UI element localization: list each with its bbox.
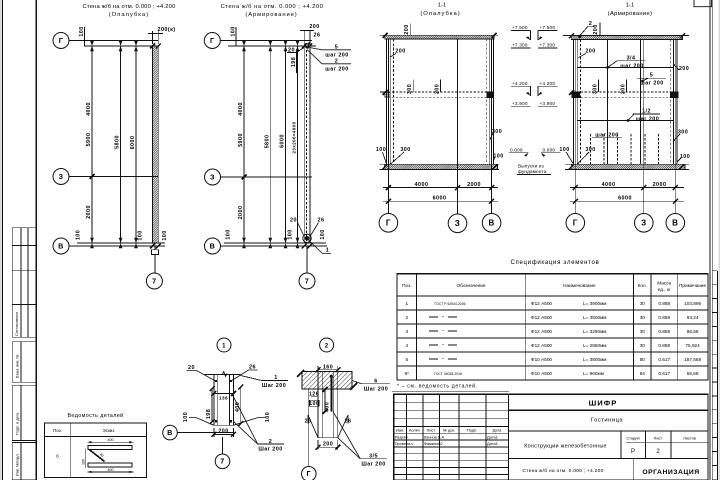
leader 26 bottom	[310, 223, 319, 237]
tb stadia cols	[620, 431, 622, 458]
s2 left wall lines	[573, 40, 575, 165]
svg-text:30: 30	[640, 315, 646, 320]
svg-text:100: 100	[320, 229, 326, 239]
svg-text:Дата1: Дата1	[487, 441, 498, 446]
svg-text:З: З	[59, 172, 64, 181]
svg-text:93,24: 93,24	[687, 315, 699, 320]
svg-text:Ф12 А500: Ф12 А500	[531, 343, 552, 348]
top-right corner box	[694, 0, 712, 7]
d2 dim 126 line	[311, 396, 318, 398]
axis line Z	[69, 176, 159, 178]
svg-text:Шаг 200: Шаг 200	[262, 383, 286, 389]
d2 leader 26 left	[308, 415, 318, 438]
wall rebar dashed	[306, 46, 308, 243]
TITLEBLOCK	[394, 394, 708, 480]
s1 circle G	[379, 214, 398, 233]
s1 circle V	[482, 214, 501, 233]
svg-text:+7.500: +7.500	[540, 25, 556, 30]
svg-text:№ док.: № док.	[443, 427, 455, 432]
svg-text:100: 100	[680, 154, 690, 160]
d1 label1 line	[262, 380, 288, 382]
s2 right wall dashed	[669, 40, 671, 165]
svg-text:5800: 5800	[264, 135, 270, 149]
d2 label6 leader	[352, 381, 362, 384]
svg-text:1: 1	[274, 375, 277, 381]
s2 left wall dashed	[580, 40, 582, 165]
svg-text:200: 200	[435, 84, 441, 94]
svg-text:Изм.: Изм.	[396, 427, 404, 432]
svg-text:(Армирование): (Армирование)	[608, 11, 652, 17]
s2 leader 100 r	[677, 158, 681, 162]
ticks plan2	[242, 41, 313, 249]
svg-text:6*: 6*	[405, 371, 410, 376]
svg-text:75,924: 75,924	[685, 343, 700, 348]
s2 circle V	[666, 214, 685, 233]
svg-text:В: В	[672, 218, 678, 227]
svg-text:5: 5	[335, 45, 338, 51]
svg-text:100: 100	[376, 147, 386, 153]
svg-text:4000: 4000	[602, 182, 616, 188]
svg-text:L= 3250мм: L= 3250мм	[583, 329, 607, 334]
svg-text:1/2: 1/2	[642, 109, 651, 115]
s1 leader 300 bl	[390, 152, 404, 164]
svg-text:фундамента: фундамента	[518, 169, 547, 174]
s2 axis G vertical	[574, 40, 576, 214]
svg-text:* – см. ведомость детале: * – см. ведомость деталей.	[397, 383, 478, 390]
svg-text:Дата1: Дата1	[487, 434, 498, 439]
svg-text:100: 100	[138, 230, 144, 240]
svg-text:1-1: 1-1	[626, 3, 634, 9]
wall outline plan2	[304, 46, 310, 243]
ved sketch left dim	[85, 448, 87, 468]
d1 leader 20	[187, 371, 216, 382]
elev flag 0.000 s2	[541, 147, 561, 156]
paper left edge	[0, 0, 2, 480]
svg-text:200: 200	[620, 84, 626, 94]
elev flag 0.000 s1	[509, 147, 529, 156]
axis circle 72	[299, 273, 315, 289]
svg-text:400: 400	[108, 468, 114, 472]
dim 200k top	[152, 31, 154, 44]
dim line L3	[135, 46, 137, 243]
svg-text:2000: 2000	[238, 206, 244, 220]
d1 dim arrows	[210, 385, 244, 437]
axis line Z2	[221, 176, 313, 178]
d1 circle V	[163, 425, 178, 440]
svg-text:200: 200	[679, 66, 689, 72]
svg-text:'': ''	[442, 357, 444, 362]
svg-text:(Армирование): (Армирование)	[245, 12, 297, 18]
svg-text:ШИФР: ШИФР	[589, 398, 618, 407]
rebar ring bottom	[303, 234, 311, 242]
main frame right line	[709, 0, 711, 480]
svg-text:30: 30	[640, 343, 646, 348]
main frame left line	[35, 0, 37, 480]
d1 member right lines	[229, 375, 231, 426]
axis circle 7	[146, 273, 162, 289]
svg-text:шаг 200: шаг 200	[640, 81, 663, 87]
s2 bottom dim line1	[570, 187, 684, 189]
svg-text:300: 300	[492, 129, 502, 135]
svg-text:300: 300	[592, 84, 598, 94]
svg-text:Проверил: Проверил	[395, 441, 413, 446]
svg-text:Эскиз: Эскиз	[103, 428, 115, 433]
ved arrows	[88, 441, 134, 473]
svg-text:2: 2	[405, 315, 408, 320]
s1 axis G vertical	[387, 39, 389, 213]
axis circle Z	[53, 169, 69, 185]
svg-text:200(к): 200(к)	[158, 27, 176, 33]
svg-text:В: В	[210, 241, 216, 250]
stamp cell Podp i data	[12, 385, 36, 440]
d1 rebar dots	[215, 380, 217, 382]
svg-text:З: З	[210, 172, 215, 181]
svg-text:7: 7	[220, 457, 224, 466]
d1 circle 1	[217, 338, 231, 352]
s1 mid slab right black	[487, 92, 494, 98]
svg-text:26: 26	[345, 419, 352, 425]
svg-text:6: 6	[374, 379, 377, 385]
DETAIL2	[297, 338, 390, 480]
svg-text:6000: 6000	[280, 134, 286, 148]
d2 wall left lines	[317, 372, 319, 438]
svg-text:(Опалубка): (Опалубка)	[109, 12, 149, 18]
s2 leader 5	[637, 78, 666, 82]
svg-text:0.000: 0.000	[510, 147, 523, 152]
svg-text:200: 200	[404, 24, 410, 34]
svg-text:Ф12 А500: Ф12 А500	[531, 301, 552, 306]
d1 member left lines	[213, 375, 215, 426]
axis circle G	[53, 33, 69, 49]
s1 circle Z	[448, 214, 467, 233]
spec repeat marks	[429, 317, 457, 359]
svg-text:Шаг 200: Шаг 200	[361, 461, 385, 467]
axis circle Z2	[205, 169, 221, 185]
svg-text:26: 26	[314, 33, 321, 39]
d1 dim 200 line	[214, 433, 234, 435]
svg-text:86,58: 86,58	[687, 329, 699, 334]
dim 198 line	[296, 50, 298, 73]
dim ext 100 top	[84, 27, 86, 46]
svg-text:2: 2	[325, 343, 329, 349]
s2 dim 200 slab line	[599, 23, 601, 36]
s2 mid slab right black	[670, 92, 679, 98]
svg-text:26: 26	[249, 365, 256, 371]
s1 mid slab end ticks	[383, 90, 494, 97]
svg-text:Качнов В.А.: Качнов В.А.	[424, 434, 445, 439]
svg-text:Листов: Листов	[683, 436, 696, 441]
svg-text:Колич: Колич	[409, 427, 420, 432]
svg-text:100: 100	[287, 229, 293, 239]
axis line V	[69, 245, 165, 247]
svg-text:З: З	[455, 219, 460, 228]
svg-text:+3.900: +3.900	[512, 101, 528, 106]
tb row3 line	[508, 457, 708, 459]
svg-text:Поз.: Поз.	[402, 283, 411, 288]
svg-text:300: 300	[678, 130, 688, 136]
svg-text:ГОСТ Р 52544-2006: ГОСТ Р 52544-2006	[435, 302, 466, 306]
svg-text:0.617: 0.617	[658, 371, 670, 376]
d2 wall right lines	[333, 372, 335, 438]
s1 right wall dashed	[486, 39, 488, 164]
svg-text:100: 100	[265, 412, 271, 422]
leader 20 bottom	[298, 223, 305, 237]
wall strip hatched	[153, 46, 159, 243]
wall top edge line2	[228, 45, 316, 47]
svg-text:Фамилия2: Фамилия2	[424, 441, 443, 446]
svg-text:Стена ж/б на отм. 0.000 ; +4.2: Стена ж/б на отм. 0.000 ; +4.200	[522, 468, 603, 474]
s2 mid end ticks	[569, 90, 677, 97]
svg-text:300: 300	[407, 84, 413, 94]
svg-text:Г: Г	[210, 36, 215, 45]
s2 leader 3/4	[606, 61, 645, 69]
svg-text:+3.900: +3.900	[540, 101, 556, 106]
d2 label35 leaders	[338, 438, 361, 459]
svg-text:200: 200	[395, 49, 405, 55]
svg-text:Г: Г	[573, 218, 578, 227]
ELEVMARKS	[509, 25, 561, 174]
svg-text:1: 1	[326, 248, 329, 254]
svg-text:Дата: Дата	[493, 427, 502, 432]
svg-text:'': ''	[442, 329, 444, 334]
s2 axis Z vertical	[643, 40, 645, 214]
svg-text:400: 400	[325, 402, 331, 412]
s1 axis Z vertical	[457, 39, 459, 214]
svg-text:100: 100	[231, 26, 237, 36]
d1 leader 26	[231, 370, 258, 381]
svg-text:Ф12 А500: Ф12 А500	[531, 329, 552, 334]
s2 mid slab dashed lines	[577, 91, 673, 93]
s1 bottom band hatched	[384, 164, 497, 169]
s2 mid slab left black	[571, 92, 580, 98]
svg-text:Г: Г	[386, 218, 391, 227]
s1 bottom end ticks	[382, 165, 497, 170]
s2 leader 1/2	[627, 114, 660, 122]
svg-text:Масса: Масса	[657, 280, 671, 285]
ved sketch top dim	[88, 441, 134, 443]
svg-text:0.888: 0.888	[658, 329, 670, 334]
svg-text:160: 160	[323, 365, 333, 371]
ved sketch bottom bar	[88, 463, 132, 467]
PLAN2	[204, 27, 351, 289]
s2 rebar horiz 2	[577, 120, 673, 122]
svg-text:20: 20	[290, 218, 297, 224]
svg-text:Лист: Лист	[427, 427, 436, 432]
s1 mid slab left hatch	[385, 92, 390, 97]
s2 dim ticks bottom	[573, 185, 678, 204]
d2 leader 26 right	[338, 415, 348, 438]
dim line P2L1	[243, 46, 245, 243]
VEDOMOST	[44, 423, 146, 478]
s1 left wall lines	[386, 39, 388, 164]
d2 slab end ticks	[297, 370, 357, 390]
d1 axis line 7	[222, 437, 224, 454]
spec header bottom	[397, 295, 708, 297]
svg-text:7: 7	[152, 276, 156, 285]
axis circle V2	[205, 238, 221, 254]
d2 rebar thick	[330, 377, 332, 412]
d2 circle 2	[320, 338, 334, 352]
s2 right wall lines	[673, 40, 675, 165]
wall top edge line	[84, 45, 159, 47]
dim line P2L3	[285, 46, 287, 243]
svg-text:Спецификация элементов: Спецификация элементов	[511, 260, 600, 266]
s2 label2 leader	[588, 25, 595, 27]
s2 bottom ext lines	[565, 163, 689, 165]
svg-text:7: 7	[305, 276, 309, 285]
svg-text:L= 3500мм: L= 3500мм	[583, 315, 607, 320]
svg-text:5: 5	[405, 357, 408, 362]
s2 circle Z	[635, 214, 654, 233]
step to axis72	[306, 246, 308, 273]
s1 dim 200 mid line	[440, 80, 442, 93]
s1 dim 200 slab line	[410, 24, 412, 36]
svg-text:L= 3900мм: L= 3900мм	[583, 301, 607, 306]
svg-text:0.888: 0.888	[658, 301, 670, 306]
ved sketch diagonal	[89, 449, 105, 461]
underline 20t	[287, 52, 296, 54]
s2 leader 300 r	[674, 134, 681, 141]
svg-text:+7.300: +7.300	[512, 43, 528, 48]
svg-text:100: 100	[79, 26, 85, 36]
svg-text:шаг 200: шаг 200	[325, 67, 348, 73]
svg-text:ОРГАНИЗАЦИЯ: ОРГАНИЗАЦИЯ	[642, 469, 699, 476]
s2 dim 200 mid line	[625, 80, 627, 93]
s1 dim ticks bottom	[386, 185, 494, 204]
s1 left wall dashed	[392, 39, 394, 164]
svg-text:6000: 6000	[618, 196, 632, 202]
tb left cols	[406, 394, 408, 480]
svg-text:4000: 4000	[415, 182, 429, 188]
s1 leader 100 r	[493, 157, 494, 162]
svg-text:Стена ж/б на отм. 0.000 ; +4.2: Стена ж/б на отм. 0.000 ; +4.200	[221, 4, 324, 10]
svg-text:0.617: 0.617	[658, 357, 670, 362]
svg-text:+7.500: +7.500	[512, 25, 528, 30]
d2 circle G	[302, 467, 317, 480]
svg-text:Гостиница: Гостиница	[591, 418, 624, 424]
s1 right wall lines	[489, 39, 491, 164]
svg-text:Кол.: Кол.	[638, 283, 647, 288]
s1 bottom ext line	[380, 163, 500, 165]
tb org divider	[632, 458, 634, 480]
svg-text:Поз.: Поз.	[53, 428, 62, 433]
ved sketch bottom dim	[88, 471, 134, 473]
svg-text:200: 200	[323, 442, 333, 448]
dim 200 top2	[303, 31, 305, 45]
svg-text:198: 198	[291, 57, 297, 67]
d1 leader 100 right	[233, 418, 265, 426]
svg-text:Наименование: Наименование	[563, 283, 596, 288]
svg-text:136: 136	[219, 396, 228, 401]
wall bottom edge line2	[224, 242, 326, 244]
d2 label35 line	[360, 458, 387, 460]
s2 dot pos2	[578, 35, 581, 38]
svg-text:2000: 2000	[86, 205, 92, 219]
d2 dim ticks	[316, 367, 341, 449]
s2 rebar vert 2	[640, 40, 642, 165]
svg-text:23х200=4600: 23х200=4600	[292, 121, 297, 153]
leader pos1	[309, 240, 332, 254]
svg-text:Ф12 А500: Ф12 А500	[531, 315, 552, 320]
svg-text:Инв. №подл.: Инв. №подл.	[16, 453, 20, 476]
svg-text:В: В	[58, 241, 64, 250]
rebar dot top	[308, 42, 311, 45]
axis circle V	[53, 238, 69, 254]
tb shifr line	[508, 409, 708, 411]
svg-text:55,68: 55,68	[687, 371, 699, 376]
d2 wall bottom	[318, 437, 338, 439]
svg-text:100: 100	[162, 230, 168, 240]
elev flag +4.200/+3.900 s2	[538, 81, 558, 107]
svg-text:26: 26	[305, 419, 312, 425]
svg-text:L= 960мм: L= 960мм	[583, 371, 604, 376]
leader pos5	[310, 48, 352, 50]
d2 slab band hatched	[302, 372, 352, 390]
svg-text:Согласовано: Согласовано	[14, 311, 19, 336]
LEFTSTAMP	[12, 228, 36, 480]
d1 label1 leader	[241, 376, 262, 381]
leader 20t	[296, 48, 304, 53]
s1 axis V vertical	[491, 39, 493, 213]
svg-text:100: 100	[493, 154, 503, 160]
svg-text:ед., кг: ед., кг	[658, 287, 671, 292]
svg-text:6000: 6000	[130, 136, 136, 150]
svg-text:2: 2	[269, 439, 272, 445]
svg-text:Взам. инв. №: Взам. инв. №	[16, 354, 20, 378]
svg-text:187,568: 187,568	[684, 357, 701, 362]
svg-text:Ф10 А500: Ф10 А500	[531, 357, 552, 362]
s1 top slab hatched	[385, 35, 494, 39]
s1 top slab end ticks	[383, 33, 497, 38]
svg-text:'': ''	[442, 343, 444, 348]
svg-text:20: 20	[288, 48, 295, 54]
svg-text:L= 3800мм: L= 3800мм	[583, 357, 607, 362]
svg-text:Ведомость деталей: Ведомость деталей	[67, 412, 123, 419]
svg-text:шаг 200: шаг 200	[636, 117, 659, 123]
s2 top slab hatched	[571, 36, 682, 40]
svg-text:100: 100	[76, 230, 82, 240]
svg-text:4000: 4000	[86, 102, 92, 116]
axis line G2	[220, 40, 312, 42]
tb main divider	[507, 394, 509, 480]
spec naimenovanie	[531, 301, 607, 376]
svg-text:3/5: 3/5	[369, 454, 378, 460]
svg-text:шаг 200: шаг 200	[595, 132, 618, 138]
svg-text:+7.300: +7.300	[540, 43, 556, 48]
d1 axis line V	[177, 432, 233, 434]
d2 dim 400 line	[324, 390, 326, 412]
s2 bottom dim line2	[570, 200, 684, 202]
s2 rebar dashed verts	[591, 134, 659, 164]
svg-text:126: 126	[309, 392, 319, 398]
d1 dim 200 ext	[213, 428, 215, 437]
s2 rebar vert 1	[607, 40, 609, 165]
s2 shag200 dim	[592, 137, 622, 139]
d2 dim 160 line	[318, 369, 338, 371]
s2 axis V vertical	[674, 40, 676, 214]
tb gostinica line	[508, 430, 708, 432]
svg-text:200: 200	[585, 49, 595, 55]
svg-text:Шаг 200: Шаг 200	[364, 386, 388, 392]
d2 dim 200 line	[318, 446, 338, 448]
svg-text:3: 3	[405, 329, 408, 334]
TITLES	[82, 3, 652, 19]
svg-text:Лист: Лист	[654, 436, 663, 441]
adjacent sheet sliver table	[712, 271, 717, 480]
svg-text:5900: 5900	[238, 133, 244, 147]
step to axis7	[152, 250, 159, 255]
svg-text:Конструкции железобетонные: Конструкции железобетонные	[524, 444, 607, 450]
